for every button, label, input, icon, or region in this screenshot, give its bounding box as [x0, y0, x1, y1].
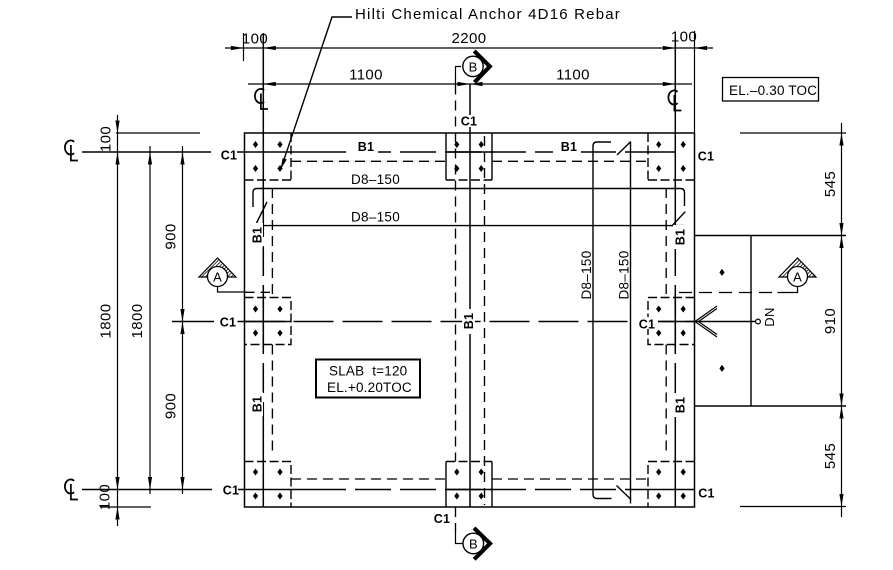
- column C1 top-right: [648, 133, 695, 180]
- svg-text:C1: C1: [461, 115, 477, 129]
- anchor dots column bottom-right: [656, 469, 686, 500]
- rebar label D8-150 vertical second: [617, 248, 632, 302]
- arrowheads 1100 dim line: [263, 82, 675, 86]
- column C1 top-center: [446, 133, 492, 180]
- rebar label D8-150 vertical first: [579, 248, 594, 302]
- rebar range line D8-150 vertical second (slashes): [630, 142, 632, 504]
- center beam B1 dashed edge left: [455, 85, 457, 534]
- dim line left 900+900: [182, 146, 184, 494]
- grid line horizontal bottom: [82, 489, 695, 491]
- arrowheads left 1800: [148, 152, 152, 490]
- column C1 mid-right: [648, 298, 695, 345]
- section marker A left: [199, 258, 244, 292]
- beam label B1 right beam lower rotated: [673, 393, 688, 417]
- svg-text:1100: 1100: [349, 67, 383, 84]
- svg-text:B1: B1: [251, 227, 265, 243]
- beam label B1 left beam upper rotated: [250, 223, 265, 247]
- svg-text:100: 100: [671, 29, 697, 46]
- column C1 mid-left: [245, 298, 292, 345]
- svg-text:DN: DN: [762, 307, 777, 326]
- centerline symbol top-right grid: [668, 90, 681, 110]
- anchor dots column top-center: [454, 141, 484, 172]
- rebar range line D8-150 vertical first (hooks right): [593, 142, 612, 499]
- extension line slab left at top dim: [243, 33, 245, 61]
- dim line left 1800: [149, 146, 151, 494]
- centerline symbol top-left grid: [255, 89, 268, 109]
- rebar range line D8-150 first (horizontal, hooks down at ends): [253, 189, 685, 208]
- beam label B1 top beam left: [350, 140, 378, 154]
- svg-text:100: 100: [242, 31, 268, 48]
- rebar label D8-150 first: [349, 172, 402, 187]
- anchor dots column top-left: [253, 141, 283, 172]
- DN stair arrow: [695, 306, 760, 337]
- anchor dots column mid-left: [253, 306, 283, 337]
- svg-text:D8–150: D8–150: [617, 250, 632, 299]
- dim line top 100+2200+100: [225, 47, 713, 49]
- svg-text:EL.–0.30 TOC: EL.–0.30 TOC: [729, 83, 817, 98]
- dim line left 100/1800 chain: [117, 115, 119, 526]
- svg-text:100: 100: [97, 484, 114, 510]
- anchor dots column top-right: [656, 141, 686, 172]
- beam label B1 center rotated: [462, 309, 476, 334]
- svg-text:B1: B1: [674, 397, 688, 413]
- slab outline: [245, 133, 695, 507]
- svg-text:B1: B1: [462, 313, 476, 329]
- slash at left end of D8-150 second: [257, 202, 268, 223]
- slash at right end of D8-150 second: [672, 212, 686, 227]
- svg-text:D8–150: D8–150: [351, 172, 400, 187]
- beam label B1 right beam upper rotated: [673, 225, 688, 249]
- svg-text:D8–150: D8–150: [351, 210, 400, 225]
- svg-text:545: 545: [822, 443, 839, 469]
- svg-text:1800: 1800: [98, 304, 115, 339]
- grid line horizontal middle: [172, 321, 245, 323]
- extension line slab bottom at right dim: [740, 506, 846, 508]
- bottom beam B1 dashed edge: [291, 478, 648, 480]
- extension line grid left above plan: [262, 33, 264, 34]
- extension line slab top at left dim: [116, 132, 200, 134]
- landing dots: [719, 269, 724, 372]
- svg-text:Hilti Chemical Anchor 4D16 Reb: Hilti Chemical Anchor 4D16 Rebar: [355, 6, 621, 23]
- top beam B1 dashed edge: [291, 160, 648, 162]
- section marker A right: [778, 258, 817, 293]
- grid line vertical center: [469, 85, 471, 508]
- section A-A dashed cut line left: [245, 291, 271, 293]
- arrowheads top dim line: [231, 46, 707, 50]
- svg-text:B1: B1: [251, 396, 265, 412]
- svg-text:B1: B1: [561, 140, 577, 154]
- center beam B1 dashed edge right: [484, 136, 486, 505]
- extension line slab right at top dim: [694, 31, 696, 133]
- arrowheads left 900s: [180, 152, 184, 490]
- svg-text:C1: C1: [698, 487, 714, 501]
- svg-text:1800: 1800: [129, 304, 146, 339]
- landing slab (stair landing at right): [694, 236, 846, 407]
- svg-text:C1: C1: [434, 512, 450, 526]
- svg-text:EL.+0.20TOC: EL.+0.20TOC: [327, 380, 412, 395]
- centerline symbol left bottom grid: [65, 479, 78, 499]
- svg-text:B: B: [469, 59, 478, 74]
- dim line top 1100+1100: [248, 83, 692, 85]
- svg-text:A: A: [213, 270, 222, 285]
- svg-text:545: 545: [822, 171, 839, 197]
- section marker B bottom: [456, 528, 491, 559]
- right beam B1 dashed edge: [665, 188, 667, 456]
- svg-text:100: 100: [98, 126, 115, 152]
- svg-text:A: A: [793, 270, 802, 285]
- grid line horizontal top: [82, 151, 675, 153]
- svg-text:1100: 1100: [556, 67, 590, 84]
- svg-text:900: 900: [163, 223, 180, 249]
- slash at bottom of vertical second: [617, 486, 632, 500]
- anchor dots column mid-right: [656, 306, 686, 337]
- svg-text:910: 910: [822, 308, 839, 334]
- slab note box: [316, 360, 420, 398]
- rebar range line D8-150 second (horizontal, slashes at ends): [257, 225, 685, 227]
- svg-text:C1: C1: [220, 316, 236, 330]
- svg-text:C1: C1: [639, 318, 655, 332]
- arrowheads right dim chain: [839, 133, 843, 507]
- svg-text:B: B: [469, 537, 478, 552]
- elevation note box EL.-0.30 TOC: [723, 78, 819, 102]
- leader line Hilti anchor callout: [282, 17, 353, 167]
- svg-text:C1: C1: [221, 149, 237, 163]
- svg-text:D8–150: D8–150: [579, 250, 594, 299]
- section marker B top: [456, 51, 490, 84]
- section A-A dashed cut line right: [679, 292, 778, 294]
- extension line slab bottom at left dim: [101, 506, 151, 508]
- column label C1 top-center: [458, 115, 480, 129]
- column C1 bottom-center: [446, 462, 492, 508]
- grid line vertical left: [262, 34, 264, 507]
- left beam B1 dashed edge: [271, 188, 273, 456]
- wire: DN shaft on middle grid extension: [696, 321, 756, 323]
- svg-text:2200: 2200: [452, 30, 487, 47]
- arrowheads left dim chain: [115, 121, 119, 520]
- column C1 bottom-left: [245, 462, 292, 508]
- svg-text:B1: B1: [358, 140, 374, 154]
- rebar label D8-150 second: [349, 210, 402, 225]
- grid line vertical right: [674, 37, 676, 507]
- centerline symbol left top grid: [65, 140, 78, 160]
- slash at top of vertical second: [617, 142, 631, 156]
- anchor dots column bottom-left: [253, 469, 283, 500]
- svg-text:B1: B1: [674, 229, 688, 245]
- solid grid segments through columns: [245, 152, 695, 490]
- anchor dots column bottom-center: [454, 469, 484, 500]
- column label C1 mid-right on line: [636, 317, 658, 332]
- dim line right 545/910/545: [841, 123, 843, 517]
- svg-text:SLAB t=120: SLAB t=120: [329, 364, 407, 379]
- beam label B1 left beam lower rotated: [250, 392, 265, 416]
- svg-text:C1: C1: [698, 150, 714, 164]
- extension line slab top at right dim: [740, 132, 846, 134]
- leader arrowhead: [281, 158, 287, 169]
- beam label B1 top beam right: [553, 140, 581, 154]
- column C1 top-left: [245, 133, 292, 180]
- svg-text:900: 900: [163, 393, 180, 419]
- column C1 bottom-right: [648, 462, 695, 508]
- svg-text:C1: C1: [223, 484, 239, 498]
